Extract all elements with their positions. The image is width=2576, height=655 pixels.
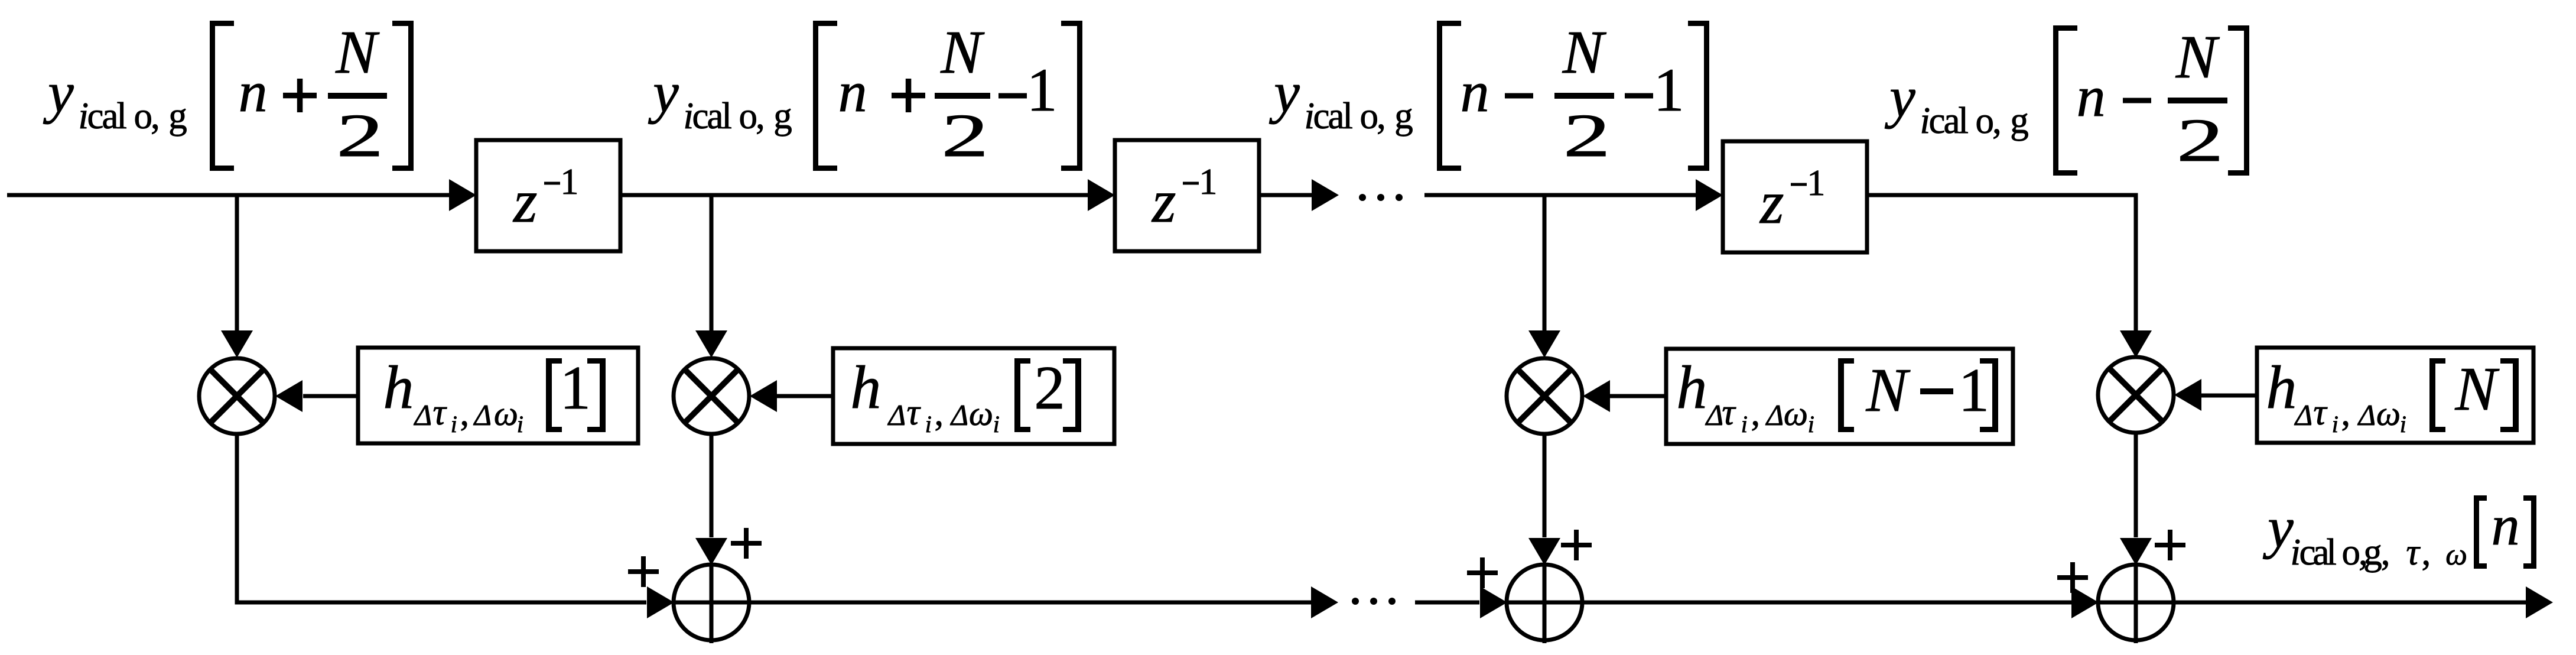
- output signal label y[n]: [2262, 494, 2536, 573]
- svg-text:cal: cal: [1313, 95, 1353, 137]
- svg-text:o,: o,: [1360, 95, 1384, 137]
- arrowhead into adder A2 top: [695, 538, 727, 565]
- svg-text:n: n: [1461, 60, 1489, 124]
- arrowhead h[N-1] into M3: [1583, 380, 1610, 412]
- svg-text:g: g: [1394, 95, 1413, 137]
- svg-text:2: 2: [336, 102, 383, 170]
- svg-text:i: i: [2332, 411, 2338, 437]
- svg-text:cal: cal: [692, 95, 732, 137]
- wire: A2 toward bottom ellipsis: [749, 601, 1312, 605]
- svg-text:n: n: [2077, 65, 2106, 129]
- svg-text:Δ: Δ: [1765, 398, 1784, 432]
- svg-text:,: ,: [2422, 531, 2431, 573]
- label z^-1 in Z1: [512, 162, 578, 235]
- svg-text:N: N: [335, 18, 380, 86]
- svg-text:z: z: [512, 167, 537, 235]
- arrowhead into multiplier M3: [1528, 330, 1560, 358]
- coefficient box h[N]: [2257, 348, 2533, 443]
- signal label y[n-N/2]: [1884, 23, 2249, 176]
- output arrowhead: [2526, 586, 2553, 618]
- svg-text:τ: τ: [2313, 393, 2328, 433]
- arrowhead into adder A4 top: [2120, 538, 2152, 565]
- coefficient box h[1]: [358, 348, 638, 443]
- svg-text:N: N: [1562, 18, 1607, 86]
- wire: bottom ellipsis to A3: [1415, 601, 1479, 605]
- svg-text:h: h: [383, 354, 414, 421]
- svg-text:,: ,: [935, 393, 944, 433]
- wire: tap branch 2: [710, 195, 714, 331]
- wire: A3 to A4: [1582, 601, 2072, 605]
- svg-text:2: 2: [941, 102, 988, 170]
- svg-text:o,: o,: [134, 95, 158, 137]
- arrowhead into adder A3 left: [1480, 586, 1507, 618]
- wire: M2 output down to adder A2: [710, 433, 714, 537]
- svg-text:N: N: [2455, 354, 2500, 423]
- svg-text:1: 1: [1199, 162, 1217, 202]
- multiplier M2: [674, 358, 749, 434]
- svg-text:Δ: Δ: [473, 398, 492, 432]
- svg-text:g: g: [2010, 100, 2029, 141]
- wire: h[N-1] to M3: [1610, 394, 1666, 398]
- arrowhead into delay block Z2: [1088, 179, 1115, 211]
- wire: A4 to output: [2174, 601, 2527, 605]
- svg-text:τ: τ: [433, 393, 448, 433]
- arrowhead into delay block Z1: [449, 179, 476, 211]
- svg-text:i: i: [1808, 411, 1814, 437]
- wire: M1 output down and right to adder A2: [237, 433, 646, 602]
- arrowhead before bottom ellipsis: [1311, 586, 1338, 618]
- svg-text:i: i: [451, 411, 457, 437]
- svg-text:i: i: [993, 411, 1000, 437]
- plus sign at A3 top input: [1561, 530, 1592, 560]
- label h[N-1]: [1676, 354, 1998, 437]
- svg-text:2: 2: [1034, 353, 1065, 422]
- label h[N]: [2266, 354, 2519, 437]
- svg-text:Δ: Δ: [414, 398, 432, 432]
- wire: ellipsis to Z3: [1424, 193, 1697, 197]
- wire: Z1 to Z2: [620, 193, 1090, 197]
- svg-text:2: 2: [2177, 106, 2224, 174]
- wire: M4 output down to adder A4: [2134, 432, 2138, 537]
- arrowhead h[N] into M4: [2174, 379, 2201, 411]
- wire: h[2] to M2: [777, 394, 833, 398]
- svg-text:τ: τ: [907, 393, 922, 433]
- label h[2]: [850, 353, 1081, 437]
- svg-text:τ: τ: [2406, 531, 2421, 573]
- svg-text:n: n: [239, 60, 268, 124]
- svg-text:2: 2: [1563, 102, 1611, 170]
- arrowhead into multiplier M4: [2120, 330, 2152, 358]
- svg-text:z: z: [1151, 167, 1176, 235]
- svg-text:N: N: [1866, 355, 1911, 424]
- svg-text:1: 1: [1027, 56, 1058, 124]
- svg-text:Δ: Δ: [2357, 398, 2376, 432]
- svg-text:,: ,: [1751, 393, 1761, 433]
- svg-text:ω: ω: [494, 394, 518, 433]
- svg-text:i: i: [2400, 411, 2406, 437]
- svg-text:o,: o,: [739, 95, 763, 137]
- svg-text:,: ,: [460, 393, 470, 433]
- adder A3: [1507, 565, 1582, 643]
- svg-text:g: g: [773, 95, 792, 137]
- svg-text:Δ: Δ: [887, 398, 906, 432]
- svg-text:n: n: [838, 60, 867, 124]
- svg-text:o,: o,: [1976, 100, 2000, 141]
- label z^-1 in Z3: [1759, 163, 1825, 236]
- svg-text:g: g: [168, 95, 187, 137]
- label h[1]: [383, 353, 606, 437]
- svg-text:cal: cal: [2299, 531, 2337, 573]
- plus sign at A2 left input: [628, 556, 659, 587]
- svg-text:1: 1: [560, 162, 578, 202]
- arrowhead into multiplier M1: [221, 330, 253, 358]
- wire: input line: [7, 193, 450, 197]
- multiplier M4: [2098, 357, 2174, 433]
- signal label y[n+N/2]: [43, 18, 414, 171]
- svg-text:τ: τ: [1722, 393, 1736, 433]
- arrowhead into delay block Z3: [1696, 179, 1723, 211]
- svg-text:N: N: [940, 18, 985, 86]
- svg-text:1: 1: [560, 353, 591, 422]
- svg-text:1: 1: [1959, 355, 1990, 424]
- wire: Z2 toward ellipsis: [1260, 193, 1313, 197]
- wire: M3 output down to adder A3: [1543, 433, 1547, 537]
- wire: tap branch 1: [235, 195, 239, 331]
- adder A2: [674, 565, 749, 643]
- svg-text:Δ: Δ: [950, 398, 968, 432]
- wire: h[N] to M4: [2201, 394, 2257, 398]
- svg-text:cal: cal: [87, 95, 127, 137]
- svg-text:h: h: [2266, 354, 2297, 421]
- svg-text:o,: o,: [2342, 531, 2366, 573]
- svg-text:ω: ω: [969, 394, 993, 433]
- delay block Z1 (z^-1): [476, 140, 620, 251]
- multiplier M1: [199, 358, 275, 434]
- delay block Z3 (z^-1): [1723, 141, 1867, 252]
- svg-text:cal: cal: [1929, 100, 1969, 141]
- plus sign at A3 left input: [1467, 557, 1498, 588]
- arrowhead into multiplier M2: [695, 330, 727, 358]
- svg-text:,: ,: [2341, 393, 2351, 433]
- svg-text:i: i: [925, 411, 932, 437]
- adder A4: [2098, 565, 2174, 643]
- signal label y[n-N/2-1]: [1269, 18, 1709, 171]
- arrowhead into adder A2 left: [647, 586, 674, 618]
- plus sign at A2 top input: [731, 528, 762, 559]
- signal label y[n+N/2-1]: [648, 18, 1082, 171]
- svg-text:Δ: Δ: [2294, 398, 2312, 432]
- wire: tap branch 3: [1543, 195, 1547, 331]
- svg-text:N: N: [2175, 23, 2220, 91]
- svg-text:1: 1: [1654, 56, 1684, 124]
- svg-text:h: h: [850, 354, 881, 421]
- svg-text:z: z: [1759, 168, 1784, 236]
- svg-text:Δ: Δ: [1705, 398, 1723, 432]
- plus sign at A4 top input: [2155, 530, 2185, 560]
- svg-text:i: i: [517, 411, 523, 437]
- svg-text:ω: ω: [1784, 394, 1808, 433]
- coefficient box h[2]: [833, 348, 1114, 444]
- arrowhead h[1] into M1: [275, 380, 303, 412]
- bottom ellipsis dots: [1352, 598, 1396, 605]
- svg-text:1: 1: [1807, 163, 1825, 203]
- multiplier M3: [1507, 358, 1582, 434]
- arrowhead h[2] into M2: [750, 380, 777, 412]
- top ellipsis dots: [1359, 194, 1403, 201]
- label z^-1 in Z2: [1151, 162, 1217, 235]
- arrowhead before top ellipsis: [1312, 179, 1339, 211]
- svg-text:i: i: [1741, 411, 1748, 437]
- delay block Z2 (z^-1): [1115, 140, 1259, 251]
- arrowhead into adder A4 left: [2071, 586, 2099, 618]
- arrowhead into adder A3 top: [1528, 538, 1560, 565]
- wire: Z3 output elbow down to multiplier M4: [1867, 195, 2136, 331]
- svg-text:h: h: [1676, 354, 1707, 421]
- wire: h[1] to M1: [303, 394, 358, 398]
- plus sign at A4 left input: [2057, 562, 2088, 593]
- svg-text:g,: g,: [2363, 531, 2389, 573]
- svg-text:ω: ω: [2445, 538, 2467, 572]
- svg-text:n: n: [2492, 494, 2520, 557]
- coefficient box h[N-1]: [1666, 349, 2013, 444]
- svg-text:ω: ω: [2376, 394, 2401, 433]
